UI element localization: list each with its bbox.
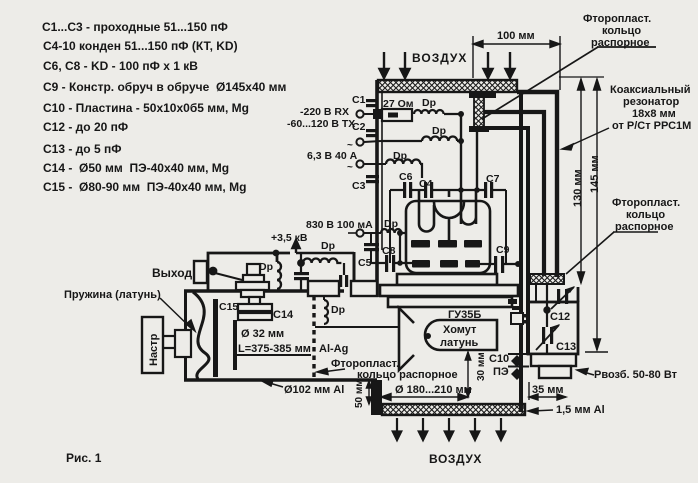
bottom hatched plate [382,404,525,415]
variable capacitor C13 [536,324,576,353]
svg-text:резонатор: резонатор [623,96,679,108]
pointer fluoroplast bottom [317,369,345,375]
node dot [458,111,464,117]
grid bars row 2 [412,260,480,268]
svg-text:С4-10 конден 51...150 пФ (КТ,: С4-10 конден 51...150 пФ (КТ, KD) [43,39,238,53]
svg-text:50 мм: 50 мм [354,379,365,408]
svg-text:100 мм: 100 мм [497,30,535,42]
dimension 130 mm [578,79,585,283]
C12 C13 box [528,302,578,354]
tuning plunger stack [236,264,269,305]
svg-text:35 мм: 35 мм [532,384,564,396]
label koax resonator [610,84,691,132]
svg-text:830 В 100 мА: 830 В 100 мА [306,219,373,231]
svg-text:от Р/Ст РРС1М: от Р/Ст РРС1М [612,120,691,132]
svg-text:С13 - до 5 пФ: С13 - до 5 пФ [43,142,121,156]
svg-text:+3,5 кВ: +3,5 кВ [271,232,308,244]
coax line L2 [484,112,544,276]
legend text block [42,20,287,194]
svg-text:С6, С8 - KD - 100 пФ х 1 кВ: С6, С8 - KD - 100 пФ х 1 кВ [43,59,198,73]
choke Dp2 [381,125,461,141]
output cavity top edge [184,289,344,292]
dim extension line top right [559,76,604,78]
svg-text:С3: С3 [352,180,366,192]
svg-text:кольцо: кольцо [602,25,641,37]
drive connector step 1 [531,354,576,366]
feedthrough capacitor C1 [352,94,378,107]
anode block wall side [351,281,377,296]
svg-text:Dp: Dp [321,240,335,252]
tuning knob box [142,317,163,373]
pointer line to top ptfe collar [482,47,656,119]
svg-text:Dp: Dp [331,304,345,316]
svg-text:Коаксиальный: Коаксиальный [610,84,690,96]
capacitor C7 [484,173,506,198]
svg-text:С10: С10 [489,353,509,365]
svg-text:С14 - Ø50 мм ПЭ-40х40 мм, Mg: С14 - Ø50 мм ПЭ-40х40 мм, Mg [43,161,229,175]
svg-text:Выход: Выход [152,266,192,280]
svg-text:-220 В RX: -220 В RX [300,106,349,118]
dim 35 mm [529,382,566,400]
svg-text:L=375-385 мм: L=375-385 мм [238,343,311,355]
svg-text:С1: С1 [352,94,366,106]
left cavity wall inner line [381,92,383,250]
svg-text:Dp: Dp [422,97,436,109]
funnel cone [399,308,414,370]
variable capacitor C12 [550,286,575,323]
svg-text:30 мм: 30 мм [476,352,487,381]
svg-text:латунь: латунь [440,337,479,349]
dimension 145 mm [585,79,608,352]
pointer diam 102 [262,380,283,387]
svg-text:С1...С3 - проходные 51...150 п: С1...С3 - проходные 51...150 пФ [42,20,228,34]
terminal 830V [348,229,381,236]
svg-text:С5: С5 [358,257,372,269]
node dots heater feeds [458,187,480,193]
choke Dp1 [414,97,444,114]
output connector [194,261,207,283]
choke Dp3 [386,150,422,178]
feedthrough capacitor C2 [352,121,378,137]
svg-text:Настр: Настр [148,333,160,366]
capacitor C14 discs [238,304,272,320]
pointer pruzhina [160,298,195,331]
capacitor C4 [412,178,484,198]
coax outer line L1 [517,92,557,277]
grid contact marks [508,299,521,310]
svg-text:С15: С15 [219,301,238,313]
svg-text:С12 - до 20 пФ: С12 - до 20 пФ [43,120,128,134]
terminal heater 2 [356,160,386,167]
wire to node [444,113,462,115]
svg-text:кольцо распорное: кольцо распорное [357,369,458,381]
choke Dp4 [381,218,407,233]
wire left drop to C8 row [389,190,391,263]
tube envelope U1 [406,190,490,273]
tuning shaft [163,330,191,357]
svg-text:С9: С9 [496,244,510,256]
svg-text:~: ~ [347,140,353,151]
svg-text:С15 - Ø80-90 мм ПЭ-40х40 мм,: С15 - Ø80-90 мм ПЭ-40х40 мм, Mg [43,180,246,194]
wire right drop to C9 row [505,190,507,264]
label Khomut latun [440,324,479,349]
svg-text:130 мм: 130 мм [572,169,584,207]
terminal RX/TX [356,110,381,117]
node dot 830V [397,230,403,236]
svg-text:Рвозб. 50-80 Вт: Рвозб. 50-80 Вт [594,369,678,381]
svg-text:С10 - Пластина - 50х10х0б5 мм,: С10 - Пластина - 50х10х0б5 мм, Mg [43,101,249,115]
capacitor C15 disc [213,299,218,377]
dim diameter 180-210 [381,394,468,401]
right ptfe collar hatched [530,274,564,284]
output cavity bottom edge [184,378,377,381]
pointer from koax label [562,128,609,150]
bottom left wall stub [371,380,382,415]
air arrows top [380,52,515,78]
capacitor C9 [480,244,521,273]
svg-text:Dp: Dp [432,125,446,137]
bypass branch [298,253,304,272]
anode flange plate 2 [380,285,518,296]
resistor 27 Ohm [382,98,414,121]
svg-text:ПЭ: ПЭ [493,366,509,378]
spring [193,292,209,379]
svg-text:С13: С13 [556,341,576,353]
anode flange plate 1 [397,274,497,285]
pointer to right collar [566,232,658,274]
coax line L3 / C12 box left [487,128,528,354]
svg-text:кольцо: кольцо [626,209,665,221]
left cavity wall [375,80,379,297]
terminal heater 1 [356,138,381,145]
clamp rivet [425,333,431,339]
blocking capacitor [339,275,348,287]
svg-text:145 мм: 145 мм [589,155,601,193]
svg-text:С2: С2 [352,121,366,133]
label C10 PE [489,353,509,378]
inner rod line [237,354,311,356]
svg-text:ВОЗДУХ: ВОЗДУХ [412,51,467,65]
wire collar to C13 [544,284,549,354]
capacitor C10 plate [508,354,529,380]
svg-text:С14: С14 [273,309,294,321]
svg-text:Рис. 1: Рис. 1 [66,451,102,465]
svg-text:~: ~ [347,162,353,173]
anode feed wire from inner conductor [476,132,478,190]
label fluoroplast ring right middle [612,197,680,233]
node dot [458,138,464,144]
label fluoroplast bottom [331,358,458,381]
feedthrough capacitor C3 [352,175,379,192]
choke Dp5 vertical [324,296,345,324]
capacitor C6 [390,171,413,198]
box right edge riser [577,287,580,302]
svg-text:Dp: Dp [259,261,273,273]
ptfe dashed ring [312,296,315,379]
dim 50 mm [366,381,371,404]
svg-text:Ø102 мм Al: Ø102 мм Al [284,384,344,396]
wire collar to box left [535,284,537,302]
node dot box top [273,250,280,257]
svg-text:Фторопласт.: Фторопласт. [612,197,680,209]
svg-text:Ø 32 мм: Ø 32 мм [241,328,284,340]
clamp body [425,320,497,350]
dim 30 mm [465,352,471,397]
top hatched plate [378,80,517,92]
svg-text:Ø 180...210 мм: Ø 180...210 мм [395,384,472,396]
dimension 100 mm [473,36,560,90]
svg-text:ВОЗДУХ: ВОЗДУХ [429,452,482,466]
svg-text:Пружина (латунь): Пружина (латунь) [64,289,161,301]
node dot C8 [397,260,403,266]
node dot C9 wall [515,261,521,267]
svg-text:Хомут: Хомут [443,324,477,336]
svg-text:С9 - Констр. обруч в обруче Ø: С9 - Констр. обруч в обруче Ø145х40 мм [43,80,287,94]
capacitor C5 [358,233,379,269]
choke Dp6 [301,240,344,275]
svg-text:1,5 мм Al: 1,5 мм Al [556,404,605,416]
wire 830V down to grid row [399,233,401,263]
loop wire [209,267,250,282]
svg-text:Al-Ag: Al-Ag [319,343,348,355]
pointer 1.5mm [528,408,553,414]
svg-text:-60...120 В ТХ: -60...120 В ТХ [287,118,355,130]
cathode connector [511,313,527,324]
capacitor C8 [371,245,412,272]
label fluoroplast ring top right [583,13,651,49]
inner conductor ptfe collar [469,92,496,132]
wall feedthrough blob [373,109,381,119]
output cavity left edge [184,290,187,381]
rod line lower right [315,326,399,328]
svg-text:18х8 мм: 18х8 мм [632,108,676,120]
right cavity wall [519,92,523,412]
svg-text:С6: С6 [399,171,413,183]
hv wire 3.5kV [292,240,354,284]
bypass capacitor [294,272,309,291]
anode flange plate 3 [388,297,512,307]
coupling loop box [208,253,290,290]
drive connector step 2 [539,366,571,378]
pointer Rvozb [577,369,594,376]
loop choke squiggle [277,262,281,289]
svg-text:Фторопласт.: Фторопласт. [583,13,651,25]
anode block [308,281,339,296]
node wire down [460,114,462,190]
air arrows bottom [393,418,505,440]
svg-text:6,3 В 40 А: 6,3 В 40 А [307,150,358,162]
grid bars row 1 [411,240,482,248]
svg-text:С12: С12 [550,311,570,323]
C14 plate support [233,320,237,370]
